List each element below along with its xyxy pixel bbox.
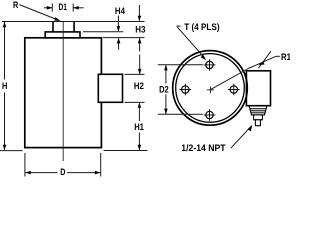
svg-text:H1: H1 xyxy=(134,121,144,132)
bottom extension line right xyxy=(104,150,148,152)
dimension H xyxy=(3,22,7,151)
radius leader R xyxy=(19,5,60,21)
body top extension line xyxy=(103,37,145,39)
label 1/2-14 NPT xyxy=(181,142,225,153)
label H4 xyxy=(115,5,126,16)
label H3 xyxy=(135,24,145,35)
step (lower boss on top of body) xyxy=(45,32,80,38)
NPT neck xyxy=(254,115,263,120)
svg-text:H2: H2 xyxy=(134,80,144,91)
step top extension line xyxy=(83,31,123,33)
NPT stem xyxy=(255,120,260,126)
boss bottom extension line xyxy=(125,101,145,103)
dimension D1 xyxy=(44,3,84,11)
label D1 xyxy=(59,1,67,12)
label D2 xyxy=(159,84,169,95)
svg-text:D: D xyxy=(60,166,65,177)
leader T xyxy=(176,26,206,60)
dimension D extension lines xyxy=(25,153,101,177)
dimension D xyxy=(25,171,100,175)
label D xyxy=(60,166,65,177)
centerline left view xyxy=(62,22,64,162)
leader R1 xyxy=(211,51,280,89)
bolt hole right xyxy=(228,84,240,96)
top extension line (cap top level) xyxy=(2,21,145,23)
bolt hole bottom xyxy=(204,109,216,121)
button (top small cylinder) xyxy=(53,22,74,32)
dimension H2 arrows xyxy=(138,55,142,108)
label R1 xyxy=(281,51,291,62)
NPT fitting hex section xyxy=(249,106,267,115)
label T (4 PLS) xyxy=(184,21,219,32)
svg-text:H: H xyxy=(2,80,8,91)
outer flange circle xyxy=(173,51,248,126)
dimension D2 extension lines xyxy=(158,65,203,115)
svg-text:R: R xyxy=(13,0,18,10)
side boss (connector block, side view) xyxy=(98,74,122,102)
leader NPT xyxy=(231,125,253,148)
svg-text:H4: H4 xyxy=(115,5,126,16)
dimension H3 arrows xyxy=(138,5,142,51)
svg-text:1/2-14 NPT: 1/2-14 NPT xyxy=(181,142,225,153)
connector block (top view) xyxy=(246,71,270,106)
label R xyxy=(13,0,18,10)
bottom extension line left xyxy=(0,150,23,152)
boss top extension line xyxy=(125,73,145,75)
center cross xyxy=(207,86,214,93)
dimension H1 xyxy=(138,104,142,150)
svg-text:D1: D1 xyxy=(59,1,67,12)
bolt hole left xyxy=(179,84,191,96)
cylinder body xyxy=(25,38,102,148)
bolt hole top xyxy=(204,59,216,71)
label H2 xyxy=(134,80,144,91)
dimension D2 xyxy=(164,65,168,114)
inner flange circle xyxy=(176,54,245,123)
svg-text:H3: H3 xyxy=(135,24,145,35)
svg-text:D2: D2 xyxy=(159,84,169,95)
svg-text:T (4 PLS): T (4 PLS) xyxy=(184,21,219,32)
label H1 xyxy=(134,121,144,132)
svg-text:R1: R1 xyxy=(281,51,290,62)
dimension H4 arrows xyxy=(117,16,121,50)
label H xyxy=(2,80,8,91)
